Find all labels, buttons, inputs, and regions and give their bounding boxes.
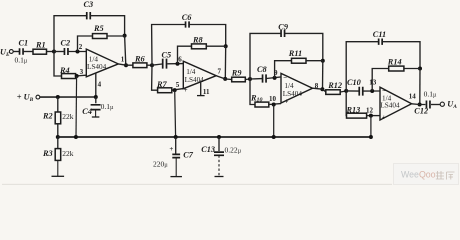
wire node A2 to C5 — [152, 64, 162, 65]
resistor R11 — [292, 58, 307, 63]
output terminal U_A — [440, 102, 444, 106]
svg-text:1: 1 — [121, 56, 125, 64]
svg-text:C12: C12 — [414, 106, 428, 115]
capacitor C9 — [281, 30, 285, 37]
svg-text:C8: C8 — [257, 65, 268, 74]
watermark glyph ku — [447, 172, 455, 180]
wire node A1 down to R4 — [54, 52, 62, 77]
svg-text:5: 5 — [176, 81, 180, 89]
wire node A2 down to R7 — [152, 65, 158, 90]
resistor R14 — [389, 66, 404, 71]
wire pin5 node down to mid rail — [174, 90, 177, 137]
output node U1 — [124, 63, 128, 67]
capacitor C10 — [359, 87, 363, 96]
svg-text:R6: R6 — [134, 54, 146, 63]
svg-text:0.1µ: 0.1µ — [101, 102, 114, 111]
svg-text:R12: R12 — [327, 81, 342, 90]
wire node A3 down to R10 — [250, 79, 255, 105]
pin 12 junction — [369, 114, 373, 118]
wire R12 to node A4 — [340, 91, 346, 92]
wire C3 to output drop — [90, 16, 124, 36]
op-amp U4 (1/4 LS404) — [380, 87, 412, 120]
wire node A1 up to C3 line — [54, 16, 87, 52]
svg-text:12: 12 — [366, 107, 374, 115]
output node U4 — [418, 103, 422, 107]
op-amp U2 (1/4 LS404) — [183, 61, 216, 88]
svg-text:0.1µ: 0.1µ — [424, 90, 437, 99]
svg-text:R7: R7 — [156, 80, 168, 89]
svg-text:R8: R8 — [192, 35, 204, 44]
wire C1 to R1 — [23, 51, 33, 53]
pin 9 junction — [273, 76, 277, 80]
wire rail to C7 — [175, 137, 177, 154]
capacitor C6 — [186, 21, 190, 27]
svg-text:0.1µ: 0.1µ — [15, 55, 28, 64]
wire node A4 to C10 — [346, 90, 359, 92]
capacitor C5 — [163, 59, 167, 69]
wire R5 to drop — [107, 35, 125, 37]
svg-text:C7: C7 — [183, 151, 194, 160]
wire R13 to pin12 node — [367, 115, 380, 117]
junction R11/C9 drop — [321, 59, 325, 63]
junction R5/C3 drop — [123, 34, 127, 38]
pin 2 junction — [76, 50, 80, 54]
bus junction pin4/C4 — [94, 95, 98, 99]
wire U_E to C1 — [13, 51, 19, 53]
svg-text:UA: UA — [447, 99, 457, 110]
svg-text:0.22µ: 0.22µ — [225, 146, 242, 155]
wire C6 to right drop — [189, 25, 226, 47]
svg-text:1/4: 1/4 — [186, 68, 196, 76]
wire node A4 down to R13 — [345, 91, 347, 116]
svg-text:LS404: LS404 — [380, 102, 400, 110]
svg-text:R11: R11 — [288, 49, 302, 58]
wire stage4 drop to output node — [419, 69, 421, 105]
op-amp U2 output wire — [216, 76, 232, 80]
pin 10 junction — [272, 103, 276, 107]
wire pin9 up to R11 — [275, 61, 292, 78]
wire R4 to pin3 node — [76, 74, 87, 77]
svg-text:R13: R13 — [346, 106, 361, 115]
wire pin10 node down to mid rail — [273, 105, 275, 138]
svg-text:+: + — [169, 145, 173, 153]
svg-text:13: 13 — [369, 78, 377, 86]
pin 6 junction — [176, 62, 180, 66]
node A4 junction — [344, 89, 348, 93]
watermark glyph wei — [436, 171, 444, 179]
output node U2 — [223, 77, 227, 81]
svg-text:22k: 22k — [62, 112, 74, 121]
wire pin6 up to R8 — [178, 46, 192, 64]
rail junction pin5/C7 — [174, 135, 178, 139]
bus junction R2 — [56, 95, 60, 99]
rail junction pin3 drop — [74, 135, 78, 139]
svg-text:C1: C1 — [19, 39, 29, 48]
svg-text:C4: C4 — [82, 107, 92, 116]
wire R7 to pin5 node — [172, 89, 184, 91]
wire C9 to right drop — [285, 33, 323, 60]
wire C12 to U_A terminal — [431, 104, 440, 106]
pin 3 junction — [75, 74, 79, 78]
wire node A1 to C2 — [54, 51, 64, 53]
wire R6 to node A2 — [147, 64, 152, 66]
wire R8 to drop — [206, 45, 225, 47]
op-amp U1 output wire — [118, 64, 133, 65]
junction R8/C6 drop — [224, 44, 228, 48]
svg-text:+ UB: + UB — [17, 93, 34, 104]
op-amp U1 (1/4 LS404) — [86, 49, 118, 77]
capacitor C4 — [91, 105, 101, 110]
resistor R12 — [326, 90, 340, 95]
wire node A3 to C8 — [250, 78, 262, 80]
resistor R4 — [62, 74, 76, 79]
faint scan line bottom — [2, 183, 392, 185]
wire bus to C4 — [95, 97, 97, 103]
wire node A3 up to C9 line — [250, 33, 281, 79]
svg-text:7: 7 — [218, 68, 222, 76]
svg-text:R9: R9 — [231, 69, 242, 78]
svg-text:3: 3 — [80, 68, 84, 76]
rail junction pin12 drop — [369, 135, 373, 139]
resistor R2 (vertical) — [55, 112, 61, 124]
svg-text:LS404: LS404 — [283, 90, 303, 98]
resistor R7 — [158, 88, 172, 93]
supply terminal +U_B — [36, 95, 40, 99]
capacitor C3 — [87, 12, 91, 19]
wire bus down to R2 — [57, 97, 59, 112]
mid divider node — [56, 135, 60, 139]
svg-text:C2: C2 — [61, 39, 71, 48]
pin 4 stub to +Ub bus — [95, 73, 97, 97]
resistor R1 — [33, 49, 47, 54]
resistor R10 — [255, 102, 269, 107]
svg-text:R5: R5 — [93, 24, 104, 33]
pin 13 junction — [370, 89, 374, 93]
svg-text:R14: R14 — [387, 58, 402, 67]
wire R9 to node A3 — [245, 78, 250, 81]
ground below C13 (dashed lead) — [218, 155, 220, 176]
wire C2 to pin2 node — [68, 51, 86, 53]
node A3 junction — [248, 77, 252, 81]
capacitor C1 — [20, 48, 24, 55]
wire pin12 node down to mid rail — [370, 116, 372, 137]
pin 11 stub — [200, 82, 202, 95]
svg-text:14: 14 — [409, 92, 417, 100]
wire pin3 node down to mid rail — [75, 76, 78, 137]
svg-text:R2: R2 — [42, 112, 53, 121]
output node U3 — [320, 87, 324, 91]
capacitor C8 — [263, 74, 267, 82]
svg-text:R1: R1 — [35, 41, 46, 50]
capacitor C12 — [426, 101, 430, 109]
rail junction C13 — [217, 135, 221, 139]
svg-text:R10: R10 — [250, 93, 263, 103]
wire R10 to pin10 node — [269, 103, 281, 106]
svg-text:R3: R3 — [42, 149, 53, 158]
pin 5 junction — [173, 88, 177, 92]
op-amp U4 output wire — [412, 103, 426, 106]
wire R1 to node A1 — [47, 51, 55, 53]
wire stage2 drop to output node — [224, 46, 226, 79]
input terminal U_E — [9, 50, 13, 54]
resistor R13 — [347, 113, 367, 118]
wire feedback drop to output node — [125, 36, 126, 66]
node A1 junction — [52, 50, 56, 54]
wire mid node down to R3 — [57, 137, 59, 149]
svg-text:C5: C5 — [162, 51, 172, 60]
ground tick below C4 — [95, 110, 97, 117]
svg-text:R4: R4 — [59, 66, 70, 75]
ground below C7 — [175, 158, 177, 177]
svg-text:10: 10 — [269, 95, 277, 103]
pin 11 ground tick — [197, 95, 205, 97]
wire pin13 up to R14 — [372, 69, 389, 92]
svg-text:22k: 22k — [62, 149, 74, 158]
op-amp U3 (1/4 LS404) — [281, 73, 313, 103]
svg-text:2: 2 — [79, 43, 83, 51]
rail junction pin10 drop — [272, 135, 276, 139]
svg-text:4: 4 — [98, 81, 102, 89]
capacitor C11 — [379, 39, 383, 45]
watermark box — [394, 164, 459, 185]
+Ub bus wire — [40, 96, 96, 98]
capacitor C2 — [64, 48, 68, 55]
capacitor C7 (electrolytic) — [172, 154, 180, 157]
wire C11 to right drop — [382, 42, 420, 69]
resistor R8 — [192, 44, 207, 49]
op-amp U3 output wire — [313, 88, 326, 92]
wire stage3 drop to output node — [322, 61, 324, 90]
svg-text:C3: C3 — [84, 0, 94, 9]
wire rail to C13 — [218, 137, 220, 151]
wire R14 to drop — [404, 68, 420, 70]
capacitor C13 — [214, 152, 224, 155]
wire C10 to pin13 node — [363, 90, 380, 92]
svg-text:C6: C6 — [182, 13, 193, 22]
mid bias rail — [58, 136, 371, 138]
svg-text:C13: C13 — [201, 145, 215, 154]
svg-text:220µ: 220µ — [153, 160, 168, 169]
wire C8 to pin9 node — [266, 77, 281, 79]
resistor R3 (vertical) — [55, 149, 61, 161]
resistor R6 — [133, 63, 147, 68]
svg-text:LS404: LS404 — [87, 63, 107, 71]
resistor R9 — [232, 77, 246, 82]
svg-text:1/4: 1/4 — [284, 82, 294, 90]
wire node A2 up to C6 line — [152, 25, 186, 66]
wire C5 to pin6 node — [167, 63, 183, 65]
svg-text:C11: C11 — [373, 30, 386, 39]
svg-text:6: 6 — [178, 55, 182, 63]
wire R2 to mid node — [57, 124, 59, 137]
wire pin2 node up to R5 — [78, 36, 93, 52]
svg-text:WeeQoo: WeeQoo — [401, 170, 436, 180]
wire R11 to drop — [306, 60, 323, 62]
ground below R3 — [57, 160, 59, 176]
wire node A4 up to C11 line — [346, 42, 378, 91]
junction R14/C11 drop — [418, 67, 422, 71]
svg-text:C10: C10 — [347, 78, 361, 87]
svg-text:C9: C9 — [278, 22, 288, 31]
svg-text:UE: UE — [0, 47, 10, 58]
node A2 junction — [150, 63, 154, 67]
resistor R5 — [93, 34, 108, 39]
svg-text:11: 11 — [203, 88, 210, 96]
